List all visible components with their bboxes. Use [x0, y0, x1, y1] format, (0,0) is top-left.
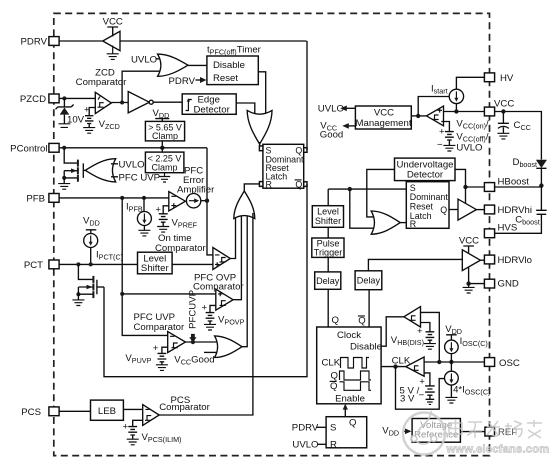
- wire PFB pin to error amp inverting input: [60, 197, 169, 199]
- wire OR2 output to latch2 R: [400, 222, 406, 224]
- block Delay (LO path): [355, 271, 382, 290]
- ground below Q-PControl: [58, 184, 70, 190]
- OR gate U-SOR (sets PFC latch) points down: [247, 110, 272, 144]
- wire PDRV to latch3 S: [317, 426, 327, 428]
- comparator U-OVP: [216, 289, 233, 310]
- wire comparator lower input to Vccon battery: [441, 122, 449, 132]
- svg-text:Enable: Enable: [335, 394, 365, 405]
- battery VHB(DIS): [426, 332, 435, 344]
- svg-text:www.elecfans.com: www.elecfans.com: [446, 443, 550, 455]
- wire driver to HDRVlo pin: [480, 259, 484, 261]
- junction GND: [466, 281, 470, 285]
- svg-text:PCT: PCT: [24, 260, 43, 271]
- wire level shifter to pulse trigger: [327, 227, 329, 238]
- svg-text:Reset: Reset: [213, 73, 238, 84]
- wire pulse trigger to delay1: [327, 257, 329, 272]
- svg-text:Detector: Detector: [407, 170, 444, 181]
- latch2 S-Dominant Reset Latch: [406, 182, 449, 229]
- svg-text:+: +: [417, 326, 423, 337]
- pin HDRVhi: [484, 205, 494, 214]
- svg-text:PFC UVP: PFC UVP: [119, 172, 161, 183]
- driver U-PDRV (points left): [103, 31, 120, 50]
- svg-text:−: −: [419, 390, 425, 401]
- latch1 R tab: [259, 182, 263, 187]
- comparator U-PCS: [143, 405, 160, 426]
- svg-text:Q: Q: [358, 315, 365, 326]
- ground below VPCS: [127, 439, 139, 445]
- svg-text:Disable: Disable: [213, 60, 245, 71]
- svg-text:Comparator: Comparator: [134, 322, 185, 333]
- svg-text:+: +: [123, 422, 129, 433]
- wire VCC pin to UVLO comparator: [444, 111, 485, 113]
- wire timer box output down to S-OR: [258, 72, 265, 116]
- comparator U-CLK (points left): [406, 357, 424, 376]
- wire delay2 down to clock Qbar: [368, 290, 370, 327]
- junction OVP branch: [120, 292, 124, 296]
- wire clamp to PControl node: [161, 141, 163, 152]
- junction PCT current source: [89, 262, 93, 266]
- MOSFET Q-PControl drain route: [64, 148, 78, 163]
- wire fault OR output up to R-OR: [242, 213, 247, 347]
- pin PZCD: [49, 94, 59, 103]
- VCC rail above PDRV driver: [107, 27, 118, 37]
- battery 5V/3V: [425, 386, 435, 399]
- svg-text:+: +: [439, 127, 445, 138]
- battery VCC(on)/VCC(off): [445, 132, 454, 146]
- comparator U-VHB (points left): [404, 307, 421, 327]
- wire OSC pin to CLK comp: [424, 361, 484, 363]
- driver U-HDRVLO: [462, 250, 480, 271]
- wire VHB comp output to clock Disable: [381, 317, 404, 346]
- svg-text:+: +: [202, 303, 208, 314]
- svg-text:Shifter: Shifter: [141, 263, 170, 274]
- MOSFET Q-PControl: [64, 163, 83, 178]
- Qbar waveform: [340, 382, 372, 391]
- IC boundary dashed border: [54, 13, 490, 455]
- svg-text:Shifter: Shifter: [315, 216, 341, 226]
- svg-text:UVLO: UVLO: [292, 440, 318, 451]
- block Disable/Reset (tPFC(off) timer): [207, 56, 258, 85]
- junction clamp node: [160, 146, 164, 150]
- block Voltage Reference: [412, 419, 460, 443]
- error amplifier U-EA: [169, 192, 186, 212]
- pin OSC: [484, 358, 494, 367]
- wire VccGood input: [204, 351, 218, 353]
- arrow latch3 Q to Enable: [344, 409, 346, 417]
- junction source-body tie: [62, 176, 66, 180]
- svg-text:Delay: Delay: [357, 276, 381, 286]
- wire S-node down to OR2 lower input: [350, 189, 376, 228]
- wire PControl pin to error-amp node: [60, 147, 208, 149]
- wire gate to Qbar loop: [97, 286, 104, 288]
- ground below VPUVP: [156, 365, 168, 371]
- battery VZCD: [85, 108, 95, 128]
- wire delay1 to clock Q: [327, 289, 329, 327]
- wire level shifter to on-time comparator +: [172, 263, 213, 265]
- wire comparator output to VCC Management: [411, 115, 426, 117]
- svg-text:Comparator: Comparator: [76, 77, 127, 88]
- svg-text:VCC: VCC: [459, 235, 479, 246]
- svg-text:UVLO: UVLO: [131, 55, 157, 66]
- svg-text:UVLO: UVLO: [119, 159, 145, 170]
- ground below Ccc: [497, 133, 509, 139]
- svg-text:PFB: PFB: [26, 194, 45, 205]
- MOSFET Q-PCT drain route: [78, 264, 93, 279]
- ground below battery: [443, 145, 455, 151]
- junction zener node: [62, 96, 66, 100]
- svg-text:Comparator: Comparator: [155, 243, 206, 254]
- wire OVP output up to R-OR: [233, 213, 241, 300]
- wire node VCONTROL down to on-time comparator: [207, 148, 213, 255]
- wire UVLO into timer OR: [156, 58, 164, 60]
- comparator U-UVLOC (points left): [427, 106, 444, 126]
- wire level shifter up to S-node: [327, 189, 329, 206]
- junction HBoost sense: [463, 185, 467, 189]
- driver U-HDRVHI: [458, 199, 476, 220]
- wire UVLO to latch3 R: [318, 443, 327, 445]
- wire PCT pin to level shifter: [60, 263, 138, 265]
- wire Istart to VCC rail: [455, 104, 457, 112]
- pin HV: [484, 73, 494, 82]
- svg-text:HDRVlo: HDRVlo: [498, 255, 532, 266]
- watermark stamp circle: [403, 413, 445, 455]
- ground below VHB battery: [424, 344, 436, 350]
- svg-text:PDRV: PDRV: [169, 76, 196, 87]
- latch1 Q tab: [304, 148, 307, 153]
- junction HBoost node: [539, 183, 543, 187]
- OR gate U-FAULT (VccGood): [215, 336, 242, 358]
- svg-text:Disable: Disable: [350, 341, 382, 352]
- svg-text:Clamp: Clamp: [152, 131, 178, 141]
- pin GND: [484, 279, 494, 288]
- svg-text:GND: GND: [498, 279, 519, 290]
- wire VCC pin to Ccc and Dboost: [495, 112, 541, 160]
- wire HV pin to Istart: [456, 77, 484, 89]
- junction PCT mosfet: [76, 262, 80, 266]
- junction source-body tie: [76, 292, 80, 296]
- OR gate U-ROR (resets PFC latch) points up: [234, 191, 255, 219]
- junction PFCUVP tap: [191, 340, 195, 344]
- svg-text:+: +: [153, 343, 159, 354]
- junction Istart/VCC: [454, 109, 458, 113]
- comparator U-ONTIME: [213, 248, 230, 270]
- capacitor Cboost: [495, 186, 547, 234]
- Q waveform: [340, 371, 372, 380]
- pin PCT: [49, 260, 59, 269]
- svg-text:R: R: [410, 219, 416, 229]
- wire R-OR output to latch1 R: [244, 184, 259, 191]
- svg-text:VCCGood: VCCGood: [174, 355, 214, 367]
- ground below VZCD: [83, 128, 95, 134]
- zener diode 10V: [63, 98, 65, 107]
- block LEB: [91, 400, 124, 420]
- battery VPOVP: [206, 305, 216, 324]
- pin PControl: [49, 143, 59, 152]
- svg-text:R: R: [330, 439, 337, 450]
- wire HBoost supply to driver: [465, 187, 467, 204]
- ground below VPOVP: [204, 324, 216, 330]
- junction PControl branch: [62, 146, 66, 150]
- junction at VCC Management: [416, 114, 420, 118]
- svg-text:VCC: VCC: [374, 108, 394, 119]
- wire PZCD pin to ZCD comparator: [60, 97, 96, 99]
- MOSFET Q-PCT: [78, 280, 97, 295]
- svg-text:LEB: LEB: [98, 406, 116, 417]
- wire S-OR output to latch1 S: [259, 142, 261, 146]
- latch1 S tab: [259, 146, 263, 151]
- ground below PDRV driver: [107, 46, 119, 60]
- current source IPCT(C): [84, 234, 98, 248]
- wire timer OR to Disable/Reset box: [188, 64, 207, 66]
- battery VPREF: [159, 206, 169, 227]
- wire latch1 Q up to PDRV driver (node Q): [306, 41, 308, 150]
- block Clock / Disable: [317, 327, 381, 404]
- svg-text:−: −: [437, 139, 443, 150]
- wire UV detector input from HBoost: [455, 169, 466, 187]
- svg-text:+: +: [84, 104, 90, 115]
- wire driver to HDRVhi pin: [476, 209, 484, 211]
- block Level Shifter: [138, 252, 173, 274]
- current source 4*IOSC(C): [450, 362, 452, 371]
- ground below 2.25V clamp: [159, 173, 170, 182]
- wire VHB comp top input from OSC node: [421, 312, 440, 362]
- block <2.25V Clamp: [145, 152, 184, 173]
- wire UVLO input stub: [111, 163, 118, 165]
- wire PCS output up to R-OR: [159, 213, 253, 415]
- pin PFB: [49, 194, 59, 203]
- wire S-node chain to latch2 S: [328, 188, 406, 190]
- wire driver input from node Q loop: [120, 40, 307, 42]
- pin PCS: [49, 407, 59, 416]
- junction S-node: [348, 187, 352, 191]
- wire CLK comp output to clock box: [381, 366, 406, 368]
- svg-text:PZCD: PZCD: [20, 94, 46, 105]
- junction Iosc: [449, 360, 453, 364]
- wire PDRV pin to driver output: [60, 40, 103, 42]
- VCC T-bar: [463, 246, 474, 253]
- svg-text:PFCUVP: PFCUVP: [188, 290, 199, 329]
- svg-text:PControl: PControl: [10, 143, 47, 154]
- ground below 4*IOSC: [445, 397, 457, 403]
- svg-text:CLK: CLK: [322, 357, 341, 368]
- svg-text:Q: Q: [295, 179, 302, 189]
- gm output circle with arrow: [186, 194, 200, 208]
- OR gate U-TMR (UVLO + ZCD): [158, 54, 188, 76]
- junction ZCD out node: [120, 101, 124, 105]
- junction EA output: [205, 199, 209, 203]
- svg-text:Clock: Clock: [337, 330, 361, 341]
- battery VPCS(ILIM): [128, 420, 142, 439]
- ground below zener: [59, 124, 71, 128]
- wire edge detector output down to S-OR: [236, 103, 255, 116]
- junction VHB sense: [437, 360, 441, 364]
- svg-text:+: +: [155, 205, 161, 216]
- svg-text:PDRV: PDRV: [21, 37, 48, 48]
- wire HBoost pin right to Dboost/Cboost: [495, 186, 541, 188]
- battery VPUVP: [158, 347, 168, 365]
- arrow UVLO output: [346, 107, 355, 109]
- wire voltage reference to REF pin: [460, 431, 485, 433]
- svg-text:HBoost: HBoost: [498, 177, 530, 188]
- wire EA output to VCONTROL node: [201, 200, 207, 202]
- wire UVP output to VccGood OR: [186, 341, 218, 343]
- block VCC Management: [355, 106, 411, 129]
- watermark text: [449, 420, 542, 438]
- wire HBoost wire left from pin: [466, 186, 485, 188]
- svg-text:UVLO: UVLO: [318, 104, 344, 115]
- svg-text:Q: Q: [332, 315, 339, 326]
- latch1 Qbar tab: [304, 182, 307, 187]
- latch3 PDRV/UVLO SR: [326, 417, 367, 448]
- wire latch2 Q to HDRVhi driver: [449, 209, 458, 211]
- junction PFB to IPFB: [142, 196, 146, 200]
- wire PFC UVP input stub: [111, 176, 118, 178]
- svg-text:VCC: VCC: [103, 17, 123, 28]
- capacitor Ccc: [498, 112, 509, 124]
- svg-text:Detector: Detector: [194, 104, 231, 115]
- svg-text:Trigger: Trigger: [314, 247, 342, 257]
- block Undervoltage Detector: [395, 158, 456, 181]
- svg-text:PCS: PCS: [21, 407, 41, 418]
- VDD T-bar: [446, 335, 457, 341]
- svg-text:S: S: [330, 423, 336, 434]
- ground below VPREF: [157, 227, 169, 233]
- wire on-time output up to R-OR: [230, 213, 235, 259]
- arrow VCC Good output: [348, 125, 355, 127]
- svg-text:OSC: OSC: [499, 358, 520, 369]
- svg-text:+: +: [419, 376, 425, 387]
- pin HDRVlo: [484, 255, 494, 264]
- svg-text:10V: 10V: [67, 115, 85, 126]
- wire CLK comp + input to 5V/3V battery: [424, 373, 430, 386]
- pin VCC: [484, 107, 494, 116]
- wire ZCD comp output to inverter: [111, 102, 128, 104]
- wire ZCD-out up into timer OR: [122, 71, 163, 102]
- current source IOSC(C): [445, 340, 459, 354]
- svg-text:R: R: [266, 179, 272, 189]
- svg-text:VCC: VCC: [494, 99, 514, 110]
- wire feedback loop to 4*Iosc enable: [396, 367, 445, 410]
- svg-text:Clamp: Clamp: [151, 162, 177, 172]
- svg-text:PDRV: PDRV: [292, 423, 319, 434]
- VDD T-bar to 5.65V clamp: [155, 119, 169, 122]
- wire LEB to PCS comparator: [123, 408, 142, 410]
- pin PDRV: [49, 37, 59, 46]
- svg-text:Management: Management: [356, 118, 412, 129]
- svg-text:Q: Q: [440, 205, 447, 215]
- comparator U-ZCD: [95, 92, 111, 113]
- block Level Shifter (HB): [312, 206, 343, 228]
- wire comparator output up to Istart control: [418, 97, 449, 116]
- CLK waveform: [341, 358, 370, 369]
- junction CLK feedback: [393, 364, 397, 368]
- svg-text:3 V: 3 V: [400, 393, 415, 404]
- svg-text:Comparator: Comparator: [159, 402, 210, 413]
- ground symbol at GND: [463, 284, 475, 293]
- block Pulse Trigger: [312, 238, 344, 257]
- svg-text:Delay: Delay: [316, 276, 340, 286]
- wire to PFC OVP + input: [122, 293, 216, 295]
- svg-text:Good: Good: [320, 130, 343, 141]
- pin HVS: [484, 229, 494, 238]
- wire inverter to edge detector: [153, 101, 182, 103]
- block Delay (PFC path): [315, 272, 341, 289]
- OR gate U-OR2 (resets HB latch): [371, 211, 400, 234]
- wire UV detector output to OR2: [367, 169, 395, 217]
- inverter U-INV: [128, 92, 149, 113]
- svg-text:UVLO: UVLO: [456, 143, 482, 154]
- svg-text:Q: Q: [330, 381, 337, 392]
- junction Ccc: [501, 109, 505, 113]
- comparator U-UVP: [168, 332, 186, 353]
- arrow PFCUVP down: [189, 334, 196, 342]
- block Edge Detector: [182, 94, 236, 114]
- latch1 S-Dominant Reset Latch: [263, 144, 304, 188]
- pin REF: [485, 427, 495, 436]
- edge glyph: [186, 100, 192, 111]
- wire PCS pin to LEB: [60, 410, 91, 412]
- wire PFB sense down to comparators: [122, 198, 168, 336]
- block >5.65V Clamp: [145, 121, 184, 140]
- current source IPFB: [143, 198, 145, 212]
- current source Istart: [449, 89, 463, 103]
- wire driver ground to GND pin: [469, 268, 484, 284]
- ground below IPFB: [138, 230, 150, 236]
- wire gate from UVP OR: [83, 169, 86, 171]
- svg-text:Q: Q: [349, 418, 356, 429]
- svg-text:HV: HV: [500, 73, 514, 84]
- wire VHB comp bottom input to battery: [421, 323, 430, 332]
- junction PFB to comparators: [120, 196, 124, 200]
- OR gate U-PUVP (points left): [85, 159, 115, 182]
- ground below Q-PCT: [72, 300, 84, 306]
- wire delay2 to HDRVlo input: [368, 259, 462, 270]
- pin HBoost: [484, 183, 494, 192]
- VDD T-bar: [86, 230, 97, 234]
- wire latch1 Qbar down to PCT mosfet gate (node Qbar): [104, 184, 307, 377]
